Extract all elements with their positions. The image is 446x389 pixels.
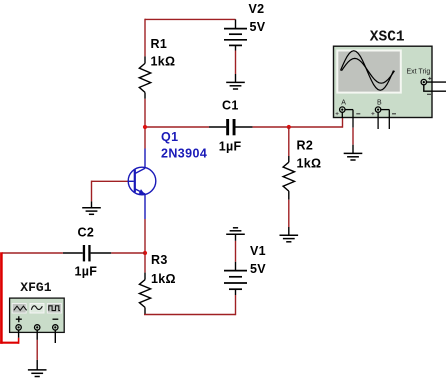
pin B- vertical (388, 110, 390, 129)
svg-text:5V: 5V (250, 20, 266, 34)
pin A- vertical (352, 110, 354, 128)
tiny plus A (336, 112, 339, 115)
tiny plus B (371, 112, 374, 115)
ground under R2 (280, 227, 299, 242)
wire top: R1 top to V2 top (145, 19, 236, 57)
pin B+ (377, 112, 379, 129)
pin A- horizontal (345, 109, 353, 111)
wire V2 to ground (235, 51, 237, 75)
wire C1 to R2 node and scope A+ (253, 126, 343, 128)
svg-text:C2: C2 (78, 226, 95, 240)
svg-text:B: B (377, 100, 382, 107)
resistor R3 (139, 273, 150, 315)
svg-text:1kΩ: 1kΩ (151, 55, 176, 69)
svg-text:1µF: 1µF (219, 140, 242, 154)
svg-text:1kΩ: 1kΩ (151, 272, 176, 286)
plus mark (16, 316, 22, 322)
wire node to C1 (145, 126, 209, 128)
svg-text:R3: R3 (151, 253, 168, 267)
transistor Q1 (128, 149, 156, 220)
wire R1 bottom to collector (144, 99, 146, 149)
minus mark (53, 318, 59, 320)
svg-text:Q1: Q1 (161, 130, 178, 144)
function generator XFG1 (10, 298, 65, 343)
wire emitter to R3 node (144, 219, 146, 273)
screen (336, 50, 402, 94)
junction dot R2 node (287, 125, 291, 129)
pin B- horizontal (381, 109, 390, 111)
square button (47, 304, 61, 314)
svg-text:R2: R2 (297, 139, 314, 153)
svg-text:1µF: 1µF (75, 265, 98, 279)
pin A+ (341, 112, 343, 118)
ground above V1 (inverted) (226, 228, 245, 241)
ground under XFG1 (28, 360, 47, 377)
svg-text:XFG1: XFG1 (20, 280, 51, 295)
svg-text:XSC1: XSC1 (370, 29, 405, 45)
wire C2 left to XFG1 plus (thick) (0, 252, 63, 343)
junction dot emitter node (143, 251, 147, 255)
trace small (342, 58, 395, 83)
terminal B (375, 107, 380, 112)
wire V1 top to ground (235, 241, 237, 262)
oscilloscope XSC1 (334, 46, 446, 129)
wire R3 bottom to V1 bottom (144, 295, 236, 315)
tiny minus B (392, 113, 396, 115)
terminal A (340, 107, 345, 112)
wire XFG1 common to ground (36, 340, 38, 360)
wire C2 right to emitter node (111, 252, 145, 254)
pin Ext- (424, 85, 446, 91)
wire scope A+ drop (342, 118, 344, 128)
pin plus (18, 330, 20, 338)
sine button (30, 304, 44, 314)
terminal Ext Trig (421, 79, 426, 84)
svg-text:C1: C1 (222, 99, 239, 113)
trace big (341, 51, 394, 91)
svg-text:Ext Trig: Ext Trig (407, 69, 431, 76)
terminal common (35, 325, 40, 330)
junction dot collector node (143, 125, 147, 129)
triangle button (12, 304, 26, 314)
pin minus (stub) (54, 330, 56, 343)
ground at base (82, 201, 101, 214)
ground under V2 (226, 74, 245, 89)
terminal plus (16, 325, 21, 330)
ground under scope A- (344, 145, 363, 160)
svg-text:V2: V2 (249, 2, 265, 16)
wire R2 to ground (288, 200, 290, 227)
svg-text:V1: V1 (250, 244, 266, 258)
tiny minus A (356, 113, 360, 115)
pin common (36, 330, 38, 340)
svg-text:1kΩ: 1kΩ (297, 157, 322, 171)
resistor R2 (283, 127, 294, 200)
voltage source V1 (224, 262, 247, 295)
tiny plus Ext (428, 77, 431, 80)
svg-text:R1: R1 (151, 37, 168, 51)
resistor R1 (139, 56, 150, 98)
voltage source V2 (224, 19, 247, 50)
terminal minus (53, 325, 58, 330)
svg-text:5V: 5V (250, 262, 266, 276)
capacitor C1 (209, 119, 253, 135)
pin Ext+ (427, 81, 446, 83)
svg-text:A: A (341, 100, 346, 107)
wire scope A- to ground (352, 128, 354, 145)
tiny minus Ext (427, 93, 431, 95)
capacitor C2 (63, 245, 111, 261)
svg-text:2N3904: 2N3904 (161, 147, 207, 161)
wire base to ground corner (92, 181, 128, 202)
